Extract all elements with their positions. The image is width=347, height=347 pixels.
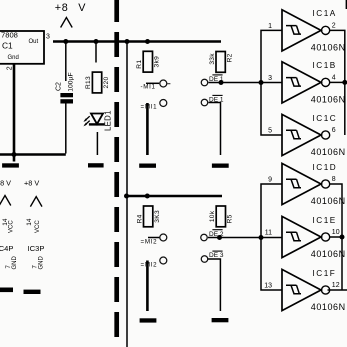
svg-text:IC1D: IC1D bbox=[313, 163, 338, 172]
svg-text:40106N: 40106N bbox=[311, 249, 346, 259]
svg-text:C1: C1 bbox=[2, 40, 13, 50]
svg-text:10k: 10k bbox=[209, 210, 216, 222]
svg-text:VCC: VCC bbox=[35, 220, 41, 233]
svg-text:Gnd: Gnd bbox=[8, 55, 19, 61]
svg-text:GND: GND bbox=[12, 256, 18, 270]
svg-text:2: 2 bbox=[332, 22, 336, 29]
svg-text:V: V bbox=[78, 2, 86, 14]
svg-text:14: 14 bbox=[26, 218, 33, 226]
svg-text:IC1A: IC1A bbox=[313, 9, 337, 18]
svg-text:R1: R1 bbox=[136, 60, 143, 69]
svg-text:DE 2: DE 2 bbox=[209, 231, 224, 238]
svg-text:10: 10 bbox=[332, 229, 340, 236]
svg-text:R13: R13 bbox=[85, 76, 92, 89]
svg-text:40106N: 40106N bbox=[311, 95, 346, 105]
svg-text:6: 6 bbox=[332, 127, 336, 134]
svg-text:5: 5 bbox=[268, 128, 272, 135]
svg-text:+8 V: +8 V bbox=[0, 179, 11, 188]
svg-text:8: 8 bbox=[332, 176, 336, 183]
svg-text:220: 220 bbox=[103, 77, 110, 89]
svg-text:=MI2: =MI2 bbox=[141, 261, 158, 268]
svg-text:IC1E: IC1E bbox=[313, 216, 337, 225]
svg-text:+8: +8 bbox=[55, 2, 69, 14]
svg-text:C2: C2 bbox=[56, 82, 63, 91]
svg-text:=MI1: =MI1 bbox=[141, 104, 158, 111]
svg-text:R4: R4 bbox=[136, 214, 143, 223]
svg-text:3k9: 3k9 bbox=[154, 56, 161, 68]
svg-text:9: 9 bbox=[268, 177, 272, 184]
svg-text:12: 12 bbox=[332, 282, 340, 289]
svg-text:R2: R2 bbox=[227, 53, 234, 62]
svg-text:13: 13 bbox=[264, 283, 272, 290]
svg-text:IC1B: IC1B bbox=[313, 61, 337, 70]
svg-text:GND: GND bbox=[39, 256, 45, 270]
svg-text:1: 1 bbox=[268, 23, 272, 30]
svg-text:100µF: 100µF bbox=[67, 72, 74, 91]
svg-text:40106N: 40106N bbox=[311, 302, 346, 312]
svg-text:3: 3 bbox=[268, 75, 272, 82]
svg-text:40106N: 40106N bbox=[311, 147, 346, 157]
svg-text:IC1F: IC1F bbox=[313, 269, 337, 278]
svg-text:=MI2: =MI2 bbox=[141, 238, 158, 245]
svg-text:R5: R5 bbox=[227, 214, 234, 223]
svg-text:40106N: 40106N bbox=[311, 196, 346, 206]
svg-text:DE 1: DE 1 bbox=[209, 97, 224, 104]
svg-text:11: 11 bbox=[265, 230, 272, 237]
svg-text:Out: Out bbox=[29, 39, 39, 45]
svg-text:DE 3: DE 3 bbox=[209, 252, 224, 259]
svg-text:IC4P: IC4P bbox=[0, 244, 13, 253]
svg-text:-MI1: -MI1 bbox=[141, 84, 156, 91]
svg-text:DE 1: DE 1 bbox=[209, 76, 224, 83]
svg-text:40106N: 40106N bbox=[311, 43, 346, 53]
svg-text:7808: 7808 bbox=[1, 31, 18, 40]
svg-text:+8 V: +8 V bbox=[24, 179, 39, 188]
svg-text:IC3P: IC3P bbox=[28, 244, 45, 253]
svg-text:4: 4 bbox=[332, 74, 336, 81]
svg-text:33k: 33k bbox=[209, 53, 216, 65]
svg-text:VCC: VCC bbox=[9, 220, 15, 233]
svg-text:3: 3 bbox=[46, 34, 50, 41]
svg-text:3K3: 3K3 bbox=[154, 210, 161, 223]
svg-text:LED1: LED1 bbox=[103, 110, 112, 131]
svg-text:2: 2 bbox=[7, 66, 14, 70]
svg-text:IC1C: IC1C bbox=[313, 114, 338, 123]
